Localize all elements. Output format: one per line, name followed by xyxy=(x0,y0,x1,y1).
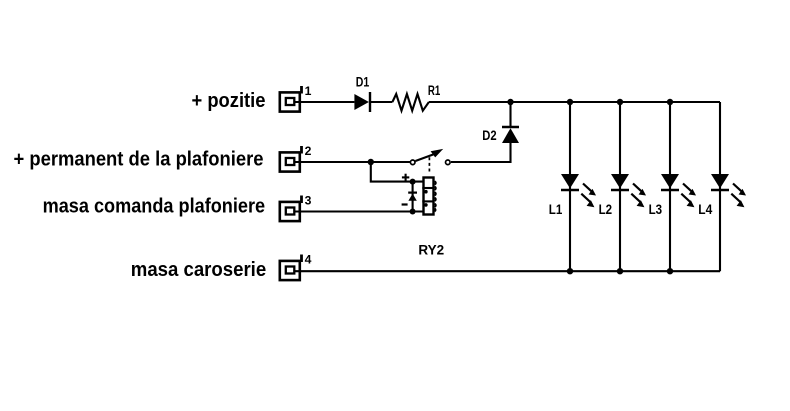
node junction bottom rail L3 xyxy=(667,268,673,274)
node junction bottom rail L1 xyxy=(567,268,573,274)
svg-text:R1: R1 xyxy=(428,83,441,98)
node junction bottom rail L2 xyxy=(617,268,623,274)
svg-text:L2: L2 xyxy=(599,202,613,217)
node junction top rail L2 xyxy=(617,99,623,105)
wire J2-junction down to coil plus xyxy=(371,162,423,182)
svg-text:1: 1 xyxy=(305,84,312,98)
wire J4 bottom rail xyxy=(295,270,720,272)
svg-text:RY2: RY2 xyxy=(418,242,444,257)
svg-text:masa caroserie: masa caroserie xyxy=(131,259,266,281)
relay coil RY2 xyxy=(422,178,435,215)
diode D1 xyxy=(354,92,370,112)
flyback diode across coil xyxy=(408,193,417,201)
wire R1 to top-right rail xyxy=(429,101,720,103)
LED L3 xyxy=(661,102,696,271)
node junction coil minus / J3 wire xyxy=(410,209,416,215)
minus sign xyxy=(402,203,408,205)
plus sign xyxy=(402,174,409,181)
relay switch contacts and arm xyxy=(410,149,450,165)
connector J1 xyxy=(280,86,302,112)
svg-text:D1: D1 xyxy=(356,75,370,90)
node junction top rail / D2 xyxy=(507,99,513,105)
svg-text:L4: L4 xyxy=(698,202,712,217)
wire flyback diode branch xyxy=(412,182,414,212)
svg-text:L3: L3 xyxy=(649,202,663,217)
svg-text:+ pozitie: + pozitie xyxy=(192,90,266,112)
svg-text:D2: D2 xyxy=(482,128,496,143)
dashed actuator line xyxy=(428,157,430,173)
connector J2 xyxy=(280,146,302,172)
wire D1 to R1 xyxy=(371,101,392,103)
LED L4 xyxy=(711,174,746,207)
wire right rail xyxy=(719,102,721,271)
wire J2 to switch xyxy=(295,161,410,163)
node junction top rail L3 xyxy=(667,99,673,105)
connector J4 xyxy=(280,255,302,281)
LED L1 xyxy=(561,102,596,271)
wire J3 to coil xyxy=(295,210,423,212)
node junction top rail L1 xyxy=(567,99,573,105)
svg-text:3: 3 xyxy=(305,194,312,208)
svg-text:L1: L1 xyxy=(549,202,563,217)
diode D2 xyxy=(502,102,519,143)
node junction coil plus xyxy=(410,179,416,185)
svg-text:4: 4 xyxy=(305,253,312,267)
wire switch to D2 xyxy=(451,143,511,162)
wire J1 to D1 xyxy=(295,101,354,103)
svg-text:+ permanent de la plafoniere: + permanent de la plafoniere xyxy=(14,149,264,171)
svg-text:2: 2 xyxy=(305,144,312,158)
resistor R1 xyxy=(392,94,429,111)
node junction J2/coil xyxy=(368,159,374,165)
connector J3 xyxy=(280,196,302,222)
svg-text:masa comanda plafoniere: masa comanda plafoniere xyxy=(43,196,266,218)
LED L2 xyxy=(611,102,646,271)
